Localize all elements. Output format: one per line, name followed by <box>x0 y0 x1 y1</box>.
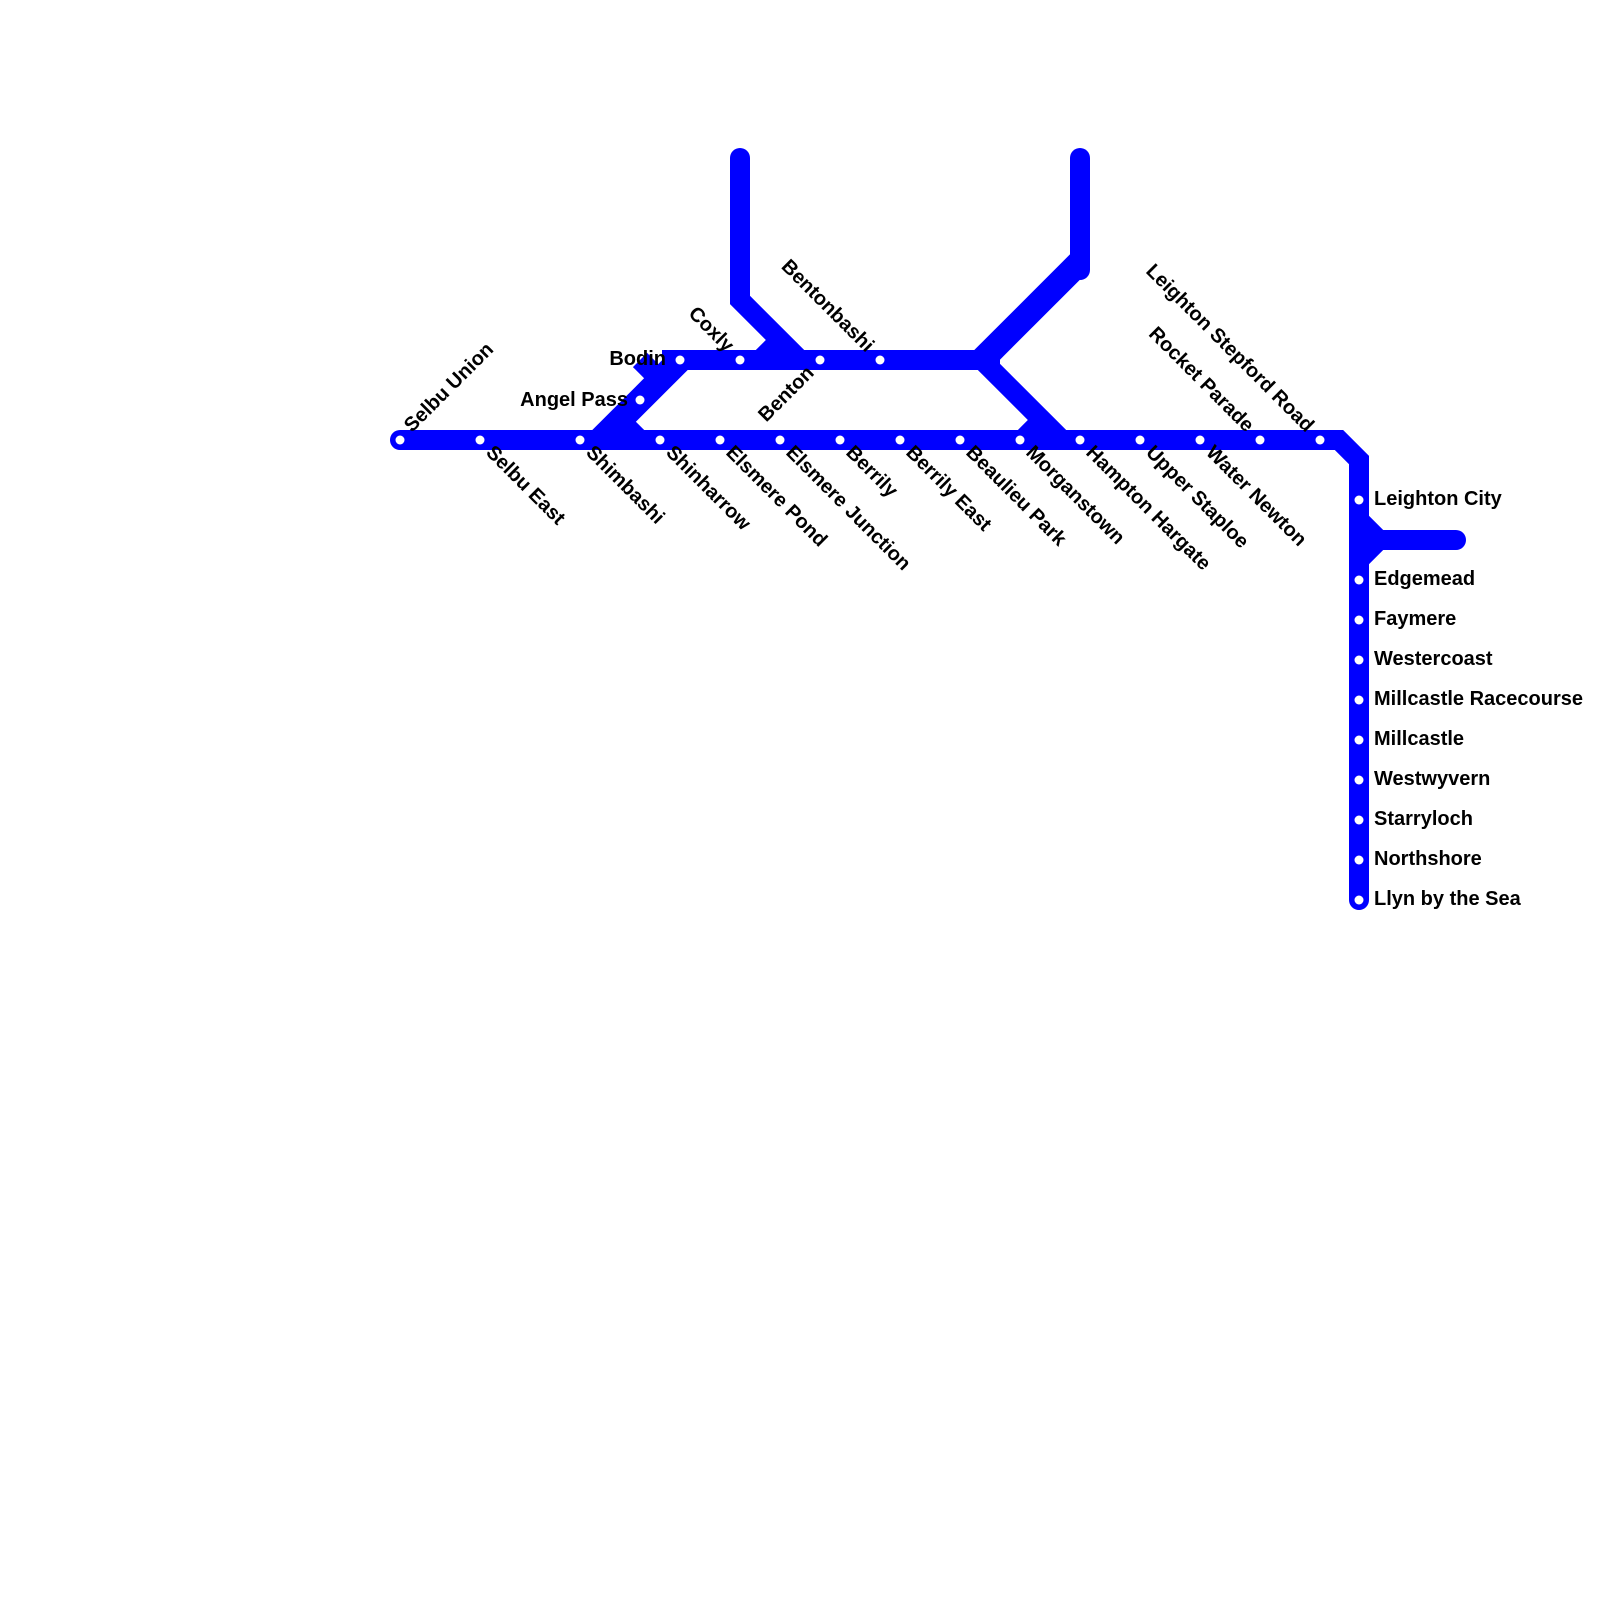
svg-text:Edgemead: Edgemead <box>1374 568 1475 590</box>
svg-text:Faymere: Faymere <box>1374 608 1456 630</box>
svg-text:Northshore: Northshore <box>1374 848 1482 870</box>
svg-text:Bodin: Bodin <box>609 348 666 370</box>
svg-text:Starryloch: Starryloch <box>1374 808 1473 830</box>
svg-text:Millcastle Racecourse: Millcastle Racecourse <box>1374 688 1583 710</box>
svg-text:Millcastle: Millcastle <box>1374 728 1464 750</box>
svg-text:Angel Pass: Angel Pass <box>520 389 628 411</box>
svg-text:Westwyvern: Westwyvern <box>1374 768 1490 790</box>
svg-text:Westercoast: Westercoast <box>1374 648 1493 670</box>
svg-text:Llyn by the Sea: Llyn by the Sea <box>1374 888 1522 910</box>
svg-text:Leighton City: Leighton City <box>1374 488 1503 510</box>
